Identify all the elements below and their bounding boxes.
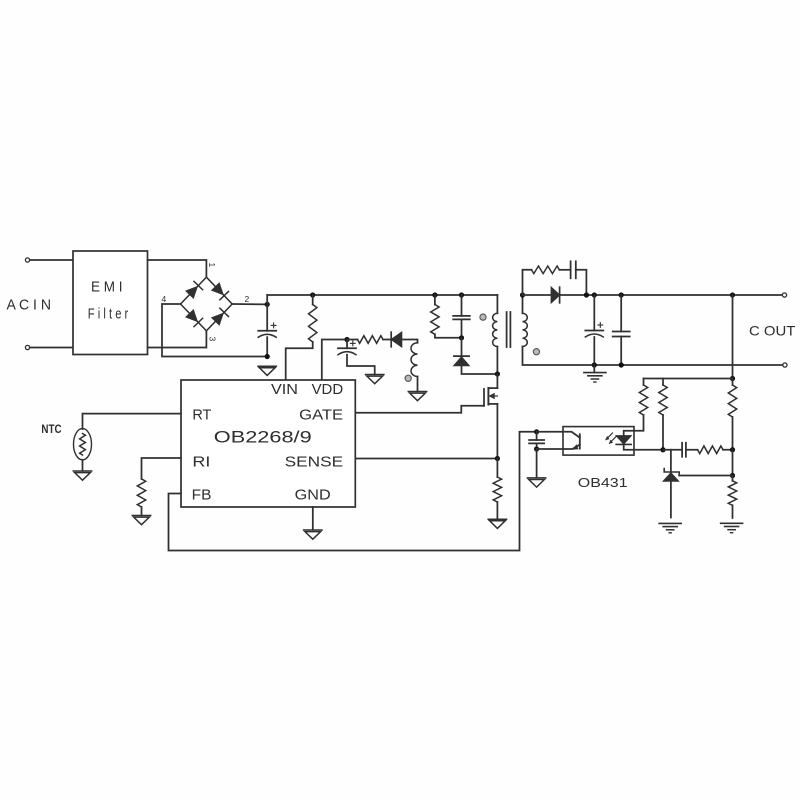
svg-text:OB431: OB431 <box>578 475 628 490</box>
wire FB pin to optocoupler collector <box>169 432 537 551</box>
output capacitor C3 (electrolytic) <box>585 295 603 337</box>
ground (VDD cap) <box>366 375 384 384</box>
opto LED <box>616 431 634 450</box>
pin label RT <box>192 407 211 424</box>
wire comp resistor to divider node <box>723 449 733 451</box>
wire cap node to opto box <box>537 431 563 433</box>
node output cap C4 bottom <box>619 362 624 367</box>
svg-text:RI: RI <box>192 454 210 471</box>
node reference junction <box>730 473 735 478</box>
bulk capacitor C1 lower lead <box>266 337 268 356</box>
output snubber capacitor C7 <box>571 261 576 278</box>
upper divider resistor R9 <box>728 379 736 450</box>
opto series resistor R8 <box>659 379 667 450</box>
wire clamp resistor bottom <box>435 334 462 338</box>
svg-text:FB: FB <box>192 486 212 503</box>
wire cap bottom lead <box>536 443 538 449</box>
wire diode D5 to aux winding <box>402 340 418 343</box>
wire TL431 reference line <box>679 475 732 477</box>
node opto emitter / cap bottom <box>534 446 539 451</box>
transformer secondary winding <box>523 313 528 346</box>
optocoupler box <box>563 427 634 456</box>
svg-text:VDD: VDD <box>312 381 344 398</box>
MOSFET Q1 source lead <box>496 404 498 459</box>
node HV rail / clamp capacitor tap <box>459 292 464 297</box>
wire AC top to EMI <box>30 259 73 261</box>
wire HV rail <box>267 294 497 296</box>
wire RT pin to NTC <box>83 414 182 429</box>
svg-text:2: 2 <box>245 294 250 304</box>
wire VDD capacitor to ground <box>347 355 375 375</box>
wire RI resistor to ground <box>141 507 143 515</box>
wire VDD node to resistor <box>347 339 358 341</box>
ground (NTC) <box>73 471 91 480</box>
IC name OB2268/9 <box>214 429 312 447</box>
label NTC <box>41 424 61 436</box>
svg-text:RT: RT <box>192 407 211 424</box>
lower divider resistor R11 <box>728 476 736 519</box>
AC input terminal bottom <box>25 345 29 349</box>
wire EMI bottom output to bridge pin3 <box>148 331 207 348</box>
earth ground (lower divider) <box>721 523 743 532</box>
MOSFET Q1 drain stub <box>488 387 497 389</box>
wire GND pin down <box>312 507 314 530</box>
opto light arrows <box>606 433 616 443</box>
output snubber riser <box>523 270 532 295</box>
wire VDD pin riser <box>322 340 347 381</box>
wire DC bus riser <box>266 295 268 304</box>
wire AC bottom to EMI <box>30 347 73 349</box>
ground (opto emitter) <box>527 478 545 487</box>
MOSFET Q1 source stub <box>488 403 497 405</box>
wire cap top lead <box>536 432 538 440</box>
wire clamp diode to drain node <box>462 366 498 374</box>
earth ground (TL431 anode) <box>659 523 681 532</box>
clamp resistor R3 <box>431 295 439 334</box>
opto phototransistor <box>563 432 580 449</box>
resistor R2 (VDD series) <box>358 336 384 344</box>
wire bridge pin4 to negative rail <box>162 304 267 357</box>
svg-text:3: 3 <box>208 337 218 342</box>
bridge rectifier outline <box>181 277 233 331</box>
label OB431 <box>578 475 628 490</box>
svg-text:OB2268/9: OB2268/9 <box>214 429 312 447</box>
compensation resistor R10 <box>698 446 723 454</box>
pin label GATE <box>299 407 343 424</box>
node output cap C4 top <box>619 292 624 297</box>
label C OUT <box>749 323 796 339</box>
node MOSFET drain <box>495 371 500 376</box>
AC input terminal top <box>25 258 29 262</box>
node secondary top <box>520 292 525 297</box>
ground (IC GND pin) <box>304 530 322 539</box>
wire startup resistor to VIN pin <box>286 342 313 380</box>
ground (sense resistor) <box>488 519 506 528</box>
RI resistor R5 <box>137 479 145 507</box>
wire secondary top to output node <box>522 295 524 313</box>
pin label GND <box>295 486 331 503</box>
label AC IN <box>7 298 52 314</box>
svg-text:1: 1 <box>207 263 217 268</box>
NTC thermistor body <box>74 429 92 460</box>
wire divider mid segment <box>732 450 734 476</box>
wire diode cathode to output rail <box>561 294 783 296</box>
pin label SENSE <box>285 454 344 471</box>
pin number 1 <box>207 263 217 268</box>
transformer secondary polarity dot <box>533 349 539 355</box>
MOSFET Q1 body stub with arrow <box>490 394 498 399</box>
transformer primary winding <box>493 295 498 374</box>
clamp capacitor C5 <box>453 295 470 338</box>
output snubber resistor R6 <box>532 266 560 274</box>
pin label RI <box>192 454 210 471</box>
wire SENSE pin to sense node <box>355 458 497 460</box>
node opto cathode junction <box>660 447 665 452</box>
diode D5 (VDD rectifier) <box>391 332 402 347</box>
node VDD capacitor tap <box>344 337 349 342</box>
transformer primary polarity dot <box>480 314 486 320</box>
ground (aux winding) <box>408 392 426 401</box>
wire secondary bottom to output return rail <box>523 347 783 366</box>
output diode D2 <box>551 287 559 303</box>
output terminal positive <box>782 293 786 297</box>
startup resistor R1 <box>309 295 317 342</box>
sense resistor R4 <box>493 459 501 503</box>
pin label VIN <box>271 381 298 398</box>
node DC bus corner <box>265 302 270 307</box>
transformer core <box>507 312 511 347</box>
bridge diode D1 (top-left) <box>186 281 203 298</box>
wire GATE pin to MOSFET gate <box>355 406 484 413</box>
output capacitor C4 <box>613 295 630 365</box>
clamp diode D6 <box>454 356 469 366</box>
node snubber return <box>584 292 589 297</box>
bridge diode D3 (bottom-left) <box>186 310 203 327</box>
wire snubber resistor to cap <box>559 269 570 271</box>
bulk capacitor C1 <box>258 323 276 337</box>
opto bias resistor R7 <box>634 379 648 431</box>
node opto collector / cap top <box>534 429 539 434</box>
aux winding L1 <box>411 343 417 377</box>
node clamp RC junction <box>459 335 464 340</box>
bridge diode D4 (bottom-right) <box>212 308 229 325</box>
opto bypass capacitor C6 <box>529 440 544 443</box>
shunt regulator OB431 (TL431) <box>663 450 679 518</box>
wire RI pin left <box>142 458 182 479</box>
aux winding polarity dot <box>405 375 411 381</box>
bridge diode D2 (top-right) <box>212 283 229 300</box>
wire emitter node to ground <box>536 449 538 478</box>
ground (RI resistor) <box>132 516 150 525</box>
wire secondary node to diode D2 anode <box>523 294 551 296</box>
svg-text:E M I: E M I <box>91 279 123 296</box>
output return terminal <box>783 363 787 367</box>
output capacitor C3 lower lead <box>593 337 595 365</box>
wire aux winding to ground <box>417 377 419 392</box>
bulk capacitor C1 lead <box>266 304 268 330</box>
MOSFET Q1 gate bar <box>483 389 485 406</box>
svg-text:A C I N: A C I N <box>7 298 52 314</box>
node negative rail junction <box>265 354 270 359</box>
wire EMI top output to bridge pin1 <box>148 260 207 277</box>
node output cap C3 bottom <box>592 362 597 367</box>
svg-text:4: 4 <box>162 294 167 304</box>
wire snubber cap to rail <box>576 270 587 295</box>
compensation capacitor C8 <box>682 443 686 457</box>
pin label VDD <box>312 381 344 398</box>
wire comp cap to comp resistor <box>686 449 698 451</box>
svg-text:GATE: GATE <box>299 407 343 424</box>
wire C3 bottom to earth <box>593 365 595 372</box>
svg-text:VIN: VIN <box>271 381 298 398</box>
VDD capacitor C2 <box>338 340 356 355</box>
svg-text:C OUT: C OUT <box>749 323 796 339</box>
wire resistor to diode D5 <box>383 339 391 341</box>
node comp network right <box>730 447 735 452</box>
node divider top <box>730 376 735 381</box>
node HV rail / clamp resistor tap <box>432 292 437 297</box>
node output cap C3 top <box>592 292 597 297</box>
ground (bulk cap) <box>258 366 276 375</box>
svg-text:GND: GND <box>295 486 331 503</box>
wire clamp junction to diode D6 <box>461 338 463 356</box>
svg-text:SENSE: SENSE <box>285 454 344 471</box>
wire sense resistor to ground <box>496 502 498 519</box>
wire divider top bus <box>644 378 733 380</box>
pin number 4 <box>162 294 167 304</box>
earth ground (output) <box>584 373 606 382</box>
pin number 3 <box>208 337 218 342</box>
wire opto cathode bus <box>634 449 663 451</box>
wire bridge pin2 to DC bus node <box>232 303 267 305</box>
node sense junction <box>495 456 500 461</box>
wire NTC to ground <box>82 460 84 471</box>
node HV rail / startup resistor tap <box>310 292 315 297</box>
EMI filter block <box>73 251 148 355</box>
pin label FB <box>192 486 212 503</box>
svg-text:NTC: NTC <box>41 424 61 436</box>
MOSFET Q1 channel bar <box>487 388 489 405</box>
wire emitter node to opto box <box>537 448 563 450</box>
node output rail divider tap <box>730 292 735 297</box>
wire divider feed (crosses return rail) <box>732 295 734 379</box>
controller IC OB2268/9 outline <box>181 380 355 507</box>
wire cathode node to comp cap <box>663 449 682 451</box>
MOSFET Q1 vertical drain lead <box>496 374 498 388</box>
pin number 2 <box>245 294 250 304</box>
svg-text:F i l t e r: F i l t e r <box>88 306 129 323</box>
